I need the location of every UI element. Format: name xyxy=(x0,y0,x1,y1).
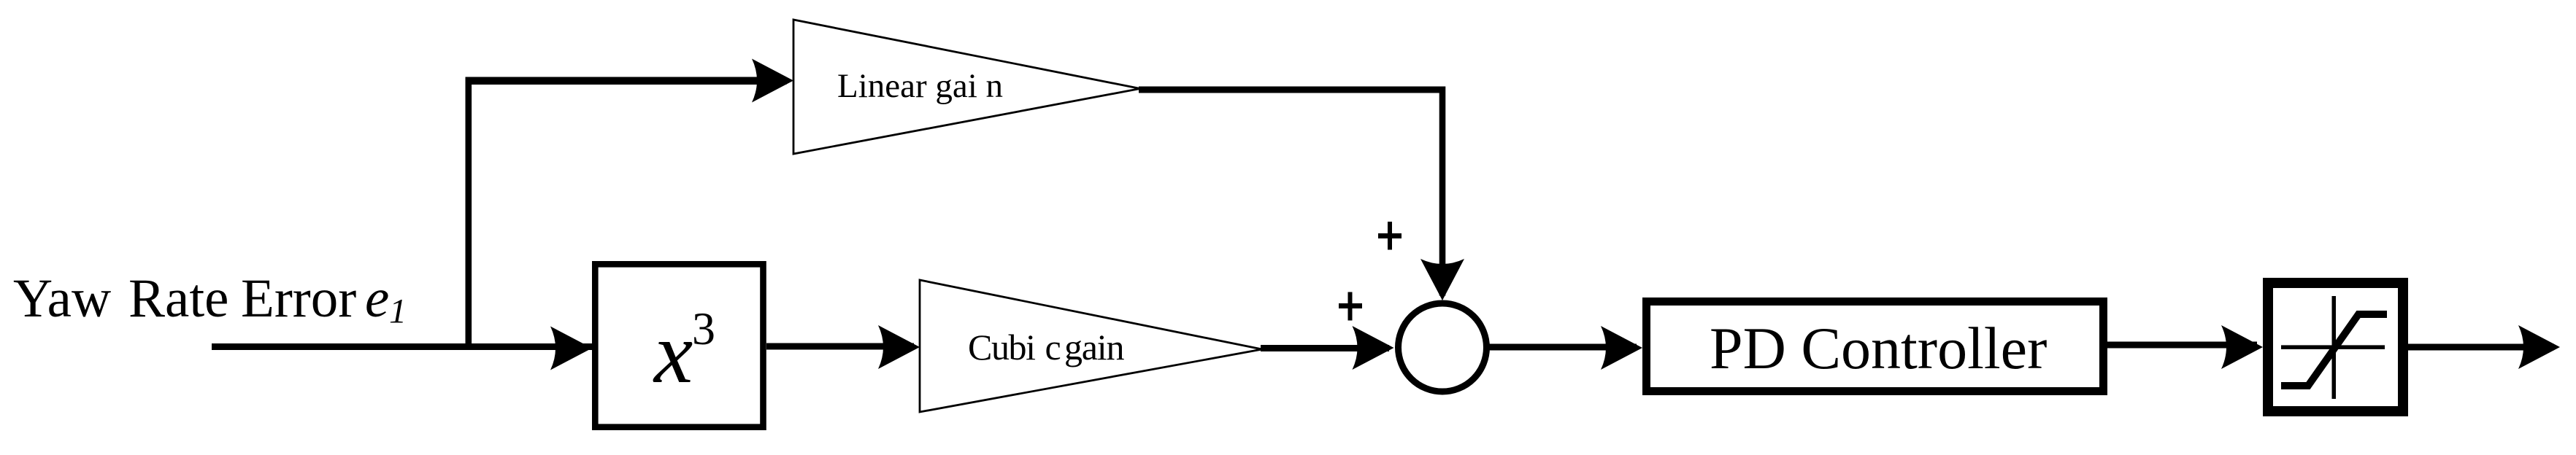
saturation icon: vertical axis xyxy=(2332,296,2337,399)
gain block: Linear gain triangle xyxy=(793,20,1140,154)
svg-text:3: 3 xyxy=(692,303,715,354)
arrow into saturation xyxy=(2221,325,2263,369)
svg-text:PD Controller: PD Controller xyxy=(1710,315,2047,381)
arrow into x^3 block xyxy=(550,327,592,370)
arrow into PD Controller xyxy=(1601,326,1642,370)
arrow: final output xyxy=(2518,325,2560,369)
wire: x^3 output to Cubic gain xyxy=(766,343,914,350)
arrow into Linear gain xyxy=(752,59,793,103)
wire: vertical drop into summing junction xyxy=(1439,87,1446,296)
wire: main input horizontal segment xyxy=(212,343,599,350)
wire: top horizontal run to Linear gain xyxy=(466,77,787,85)
sign: plus lower xyxy=(1339,292,1362,321)
wire: saturation output xyxy=(2408,344,2554,351)
node: summing junction circle xyxy=(1399,303,1487,392)
wire: Cubic gain output into summing junction xyxy=(1261,345,1389,351)
wire: summing junction to PD Controller xyxy=(1486,344,1637,351)
svg-text:x: x xyxy=(653,304,693,401)
saturation icon: curve xyxy=(2281,314,2387,386)
gain block: Cubic gain triangle xyxy=(920,280,1262,412)
arrow into summing junction left xyxy=(1353,326,1394,370)
wire: Linear gain output to corner xyxy=(1139,87,1445,93)
saturation icon: horizontal axis xyxy=(2281,345,2385,349)
wire: PD Controller to saturation xyxy=(2107,342,2257,349)
block: PD Controller xyxy=(1647,302,2104,392)
svg-text:Cubicgain: Cubicgain xyxy=(968,327,1124,367)
svg-text:Linear gai n: Linear gai n xyxy=(837,67,1003,105)
sign: plus upper xyxy=(1378,222,1402,250)
svg-text:YawRateErrore1: YawRateErrore1 xyxy=(13,268,407,330)
arrow into Cubic gain xyxy=(878,325,920,369)
node: branch junction vertical riser xyxy=(466,77,472,347)
block: x^3 xyxy=(595,264,763,427)
block: saturation xyxy=(2268,283,2403,411)
arrow down into summing junction xyxy=(1420,259,1464,300)
